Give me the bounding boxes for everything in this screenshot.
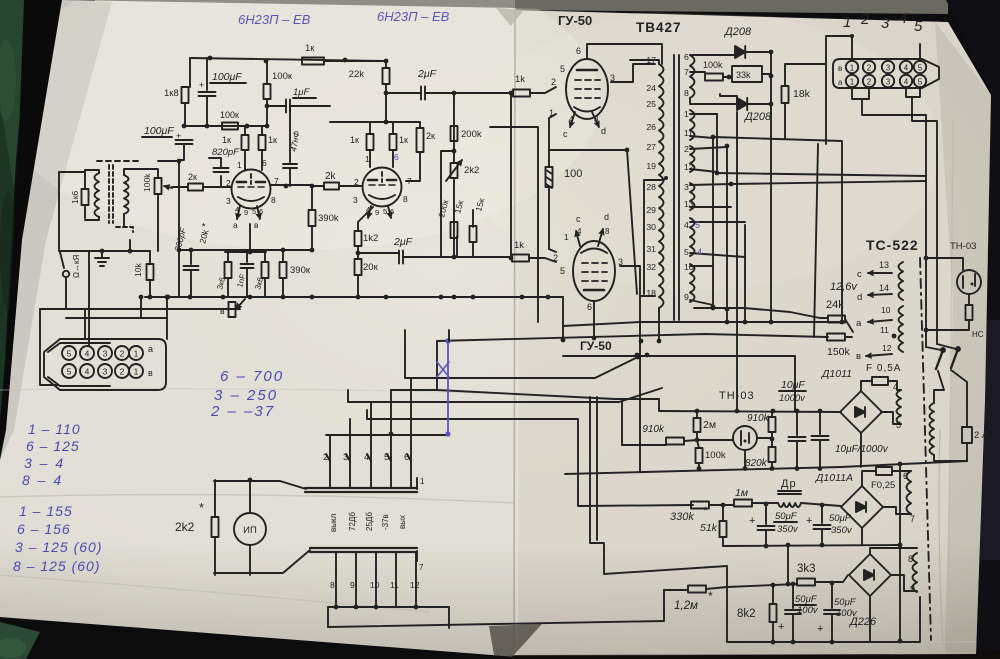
svg-text:3: 3 [353, 195, 358, 205]
svg-text:4: 4 [85, 367, 90, 377]
long feed line L3 [731, 181, 926, 184]
paper crease left horizontal [0, 495, 515, 503]
triode V2 6N23P-EV second half [363, 168, 402, 207]
svg-text:350v: 350v [777, 524, 799, 535]
svg-text:2k: 2k [325, 171, 337, 182]
connector X1 octal outline [44, 339, 166, 390]
V2 plate feed node [330, 93, 420, 122]
PSU3 winding 8-9 [870, 548, 917, 553]
wire to grid [172, 186, 188, 188]
svg-text:9: 9 [244, 208, 248, 217]
svg-text:1к6: 1к6 [70, 191, 80, 204]
svg-text:29: 29 [646, 205, 656, 215]
bridge bottom wire [860, 433, 862, 467]
svg-text:2м: 2м [703, 419, 716, 431]
svg-text:4: 4 [85, 349, 90, 359]
svg-text:Д208: Д208 [723, 26, 752, 38]
svg-text:6Н23П – ЕВ: 6Н23П – ЕВ [377, 9, 450, 24]
svg-text:c: c [576, 214, 581, 224]
switch wafer bar top [305, 488, 417, 492]
svg-text:ТС-522: ТС-522 [866, 237, 919, 253]
capacitor 50uF 100v second [831, 583, 833, 608]
svg-text:6 – 700: 6 – 700 [220, 368, 284, 385]
line 24k feed [694, 308, 828, 318]
green table bottom-left corner [0, 622, 40, 659]
resistor 100k plate feed [222, 123, 238, 130]
TV427 secondary winding 4-5 [690, 218, 695, 256]
svg-text:13: 13 [879, 260, 889, 270]
svg-text:100к: 100к [272, 71, 293, 82]
resistor 100k screen [266, 61, 268, 84]
potentiometer 100k [155, 178, 162, 194]
dark strip below paper bottom edge [0, 616, 520, 659]
svg-text:30: 30 [646, 222, 656, 232]
svg-text:Д1011: Д1011 [821, 368, 852, 380]
svg-text:3: 3 [226, 196, 231, 206]
vertical divider chain [453, 93, 455, 151]
svg-text:18k: 18k [793, 88, 811, 100]
resistor 1.2M [664, 589, 688, 591]
svg-text:d: d [601, 126, 606, 136]
svg-text:1: 1 [237, 160, 242, 170]
svg-text:4: 4 [904, 78, 909, 87]
svg-text:33k: 33k [736, 70, 751, 80]
neon lamp TN-03 right [957, 270, 981, 294]
long vertical from pot area [178, 161, 180, 297]
svg-text:2: 2 [867, 78, 872, 87]
shadow wedge between sheets at bottom [489, 624, 542, 657]
svg-text:100v: 100v [797, 605, 819, 616]
resistor 1k8 [189, 58, 191, 87]
TS-522 winding 13-14 [899, 262, 904, 300]
wire left input [59, 172, 85, 250]
primary bottom to busA [658, 310, 660, 341]
PSU1 rail to fuse [841, 461, 967, 467]
PSU1 feed rail [660, 411, 841, 412]
svg-text:50μF: 50μF [775, 511, 798, 522]
resistor 390k V1 [311, 186, 313, 210]
svg-text:2: 2 [120, 367, 125, 377]
pot tap 8 [229, 302, 236, 317]
choke Dr [778, 491, 801, 494]
input transformer T1 shield dashed [97, 160, 139, 162]
bus D [405, 330, 638, 378]
svg-text:5: 5 [918, 78, 923, 87]
svg-text:5: 5 [914, 18, 923, 35]
svg-text:3: 3 [886, 78, 891, 87]
svg-text:6: 6 [394, 152, 399, 162]
svg-text:17: 17 [646, 55, 656, 65]
svg-text:6 – 156: 6 – 156 [17, 521, 71, 537]
svg-text:3: 3 [886, 64, 891, 73]
resistor 3k3 [727, 584, 797, 587]
svg-text:910k: 910k [642, 424, 665, 435]
svg-text:11: 11 [684, 128, 693, 138]
svg-text:НС: НС [972, 330, 984, 339]
TV427 primary winding [659, 64, 664, 308]
bus C to PSU1 feed [437, 390, 659, 411]
svg-text:4: 4 [364, 452, 369, 463]
blue X mark [437, 362, 449, 377]
PSU2 winding 6-7 [907, 471, 912, 514]
connector X2 outline [833, 59, 939, 88]
svg-text:1μF: 1μF [293, 87, 310, 98]
svg-text:3k3: 3k3 [797, 563, 816, 575]
svg-text:4: 4 [684, 220, 689, 230]
svg-text:1к8: 1к8 [164, 88, 179, 99]
bus B GU50 rail [563, 356, 795, 411]
svg-text:в: в [856, 351, 861, 362]
svg-text:31: 31 [646, 244, 656, 254]
input transformer T1 primary winding [95, 173, 100, 217]
svg-text:100к: 100к [220, 110, 239, 120]
svg-text:7: 7 [910, 514, 915, 524]
svg-text:910k: 910k [747, 413, 770, 424]
cathode junction line y150 [549, 149, 627, 151]
TV427 secondary winding 6-7-8 [690, 55, 695, 98]
resistor 1k GU50 grid 1 [513, 90, 530, 97]
input transformer T1 core [109, 165, 113, 223]
svg-text:2μF: 2μF [393, 236, 413, 248]
line y309 [40, 308, 240, 310]
svg-text:1к: 1к [305, 43, 315, 54]
svg-text:Д226: Д226 [848, 616, 877, 628]
resistor 910k second [769, 417, 776, 432]
svg-text:1к: 1к [222, 135, 231, 145]
long vertical from connector to busA [814, 144, 818, 337]
svg-text:+: + [817, 623, 823, 635]
svg-text:350v: 350v [831, 525, 853, 536]
svg-text:8: 8 [908, 554, 913, 564]
switch feed wires 2 3 4 5 6 [329, 461, 331, 488]
svg-text:1: 1 [420, 477, 425, 486]
resistor 20k [355, 259, 362, 275]
V2 cathode network [358, 207, 373, 231]
PSU3 feed from PSU2 [787, 545, 789, 584]
svg-text:390к: 390к [290, 265, 311, 276]
svg-text:11: 11 [390, 580, 399, 590]
resistor 330k [691, 502, 709, 509]
resistor 100k rectifier [690, 71, 705, 73]
svg-text:в: в [254, 220, 259, 230]
bus A to 150k [437, 334, 828, 341]
wire junction row [59, 250, 150, 252]
svg-text:4: 4 [697, 247, 702, 257]
svg-text:1: 1 [134, 349, 139, 359]
bus E [348, 388, 662, 402]
svg-text:28: 28 [646, 182, 656, 192]
GU-50 second wires [549, 249, 556, 252]
svg-text:+: + [806, 515, 812, 527]
svg-text:19: 19 [646, 161, 656, 171]
svg-text:100μF: 100μF [144, 125, 174, 137]
resistor 8k2 [772, 585, 774, 604]
tube GU-50 second [573, 241, 615, 301]
resistor 1k V1 screen [259, 135, 266, 150]
svg-text:9: 9 [910, 584, 915, 594]
grid bias vertical x511 [510, 93, 512, 258]
bus wires middle [330, 434, 449, 436]
resistor 18k [782, 86, 789, 103]
svg-text:а: а [233, 220, 238, 230]
svg-text:12: 12 [410, 580, 420, 590]
svg-text:12: 12 [684, 162, 694, 172]
V1 cathode bypass network 3k6 1nF 3k6 [225, 251, 266, 253]
svg-text:8: 8 [605, 227, 610, 236]
resistor 22k [383, 68, 390, 84]
V1 grid wire pin7 to coupling [270, 184, 312, 186]
svg-text:390k: 390k [318, 213, 339, 224]
svg-text:Др: Др [781, 478, 797, 490]
svg-text:6: 6 [587, 302, 592, 312]
bottom bus to PSU [448, 607, 450, 628]
svg-text:2: 2 [551, 77, 556, 87]
svg-text:выкл: выкл [329, 513, 338, 532]
rheostat 2k2 [451, 163, 458, 178]
svg-text:4: 4 [893, 382, 898, 392]
resistor 820k [769, 447, 776, 462]
switch wafer bar bottom [310, 548, 417, 552]
resistor 2k V2 grid [324, 183, 339, 190]
svg-text:5: 5 [918, 64, 923, 73]
svg-text:2μF: 2μF [417, 68, 437, 80]
svg-text:5: 5 [383, 207, 387, 216]
capacitor 50uF 350v first [765, 504, 767, 524]
svg-text:6: 6 [684, 52, 689, 62]
bridge rectifier D226 [849, 554, 891, 596]
svg-text:1к: 1к [350, 135, 359, 145]
svg-text:c: c [563, 129, 568, 139]
svg-text:18: 18 [646, 288, 656, 298]
svg-text:3: 3 [881, 15, 890, 32]
divider cluster 200k 15k 15k [441, 151, 454, 257]
svg-text:4: 4 [904, 64, 909, 73]
coupling line y93 [386, 92, 421, 94]
neon stabilizer tube [733, 426, 757, 450]
svg-text:24k: 24k [826, 299, 844, 311]
svg-text:8 – 125 (60): 8 – 125 (60) [13, 558, 101, 574]
svg-text:820pF: 820pF [212, 147, 240, 158]
svg-text:3: 3 [103, 349, 108, 359]
connector X1 wires [141, 297, 167, 318]
svg-text:*: * [703, 505, 708, 517]
svg-text:2: 2 [226, 178, 231, 188]
svg-text:а: а [148, 344, 153, 354]
capacitor 1uF [267, 105, 286, 107]
svg-text:1 – 110: 1 – 110 [28, 421, 81, 437]
connector X2 wires bottom [852, 87, 869, 99]
svg-text:5: 5 [384, 452, 389, 463]
TV427 secondary winding 1-11 [690, 110, 695, 140]
svg-text:*: * [199, 500, 204, 515]
capacitor 10uF 1000v first [796, 412, 798, 435]
tube GU-50 first [566, 59, 608, 119]
capacitor 50uF 100v first [792, 584, 794, 608]
svg-text:в: в [148, 368, 153, 378]
svg-text:2: 2 [323, 452, 328, 463]
preamp ground rail [145, 296, 563, 298]
svg-text:27: 27 [646, 142, 656, 152]
TV427 secondary winding 2-12 [690, 146, 695, 172]
svg-text:+: + [778, 621, 784, 633]
svg-text:2 – –37: 2 – –37 [210, 403, 275, 420]
svg-text:2: 2 [553, 253, 558, 263]
GU-50 first anode wires [587, 44, 662, 64]
TV427 secondary winding 10-9 [690, 264, 695, 302]
svg-text:150k: 150k [827, 346, 851, 358]
resistor 2M [694, 418, 701, 432]
fold notch at seam top [496, 8, 524, 26]
svg-text:в: в [838, 64, 842, 73]
capacitor 100uF first [206, 58, 208, 90]
capacitor 2uF second [358, 252, 399, 254]
svg-text:5: 5 [695, 220, 700, 230]
black band along left paper edge [0, 0, 62, 460]
grid bias line y127 [490, 127, 538, 322]
resistor 10k [149, 251, 151, 264]
svg-text:2k2: 2k2 [175, 520, 195, 534]
svg-text:12,6v: 12,6v [830, 281, 858, 293]
resistor 100k PSU1 [696, 448, 703, 463]
svg-text:100μF: 100μF [212, 71, 242, 83]
input terminal [63, 271, 69, 277]
svg-text:25: 25 [646, 99, 656, 109]
svg-text:26: 26 [646, 122, 656, 132]
svg-text:9: 9 [350, 580, 355, 590]
svg-text:1: 1 [850, 78, 855, 87]
TV427 core [674, 55, 679, 320]
svg-text:6: 6 [404, 452, 409, 463]
svg-text:50μF: 50μF [795, 594, 818, 605]
capacitor 47nF [289, 106, 291, 162]
svg-text:5: 5 [560, 266, 565, 276]
svg-text:5: 5 [67, 367, 72, 377]
svg-text:2к: 2к [426, 131, 435, 141]
svg-text:1: 1 [843, 14, 851, 31]
resistor 33k box [732, 66, 762, 82]
svg-text:9: 9 [375, 208, 379, 217]
svg-text:3: 3 [103, 367, 108, 377]
svg-text:2к: 2к [188, 172, 197, 182]
svg-text:Д1011А: Д1011А [815, 472, 853, 484]
PSU1 bottom rail [565, 467, 841, 474]
long feed line L2 [717, 173, 926, 176]
resistor 2k V2 [417, 128, 424, 152]
svg-text:2 А: 2 А [974, 430, 989, 441]
bridge rectifier D1011A [841, 486, 883, 528]
svg-text:1,2м: 1,2м [674, 600, 698, 612]
svg-text:10μF: 10μF [781, 379, 805, 391]
TV427 secondary winding 3-13 [690, 183, 695, 210]
resistor 2k2 meter [214, 480, 216, 517]
TS-522 core dashed [920, 258, 931, 640]
svg-text:24: 24 [646, 83, 656, 93]
mains switch [941, 348, 945, 352]
long feed line L1 [713, 137, 842, 322]
svg-text:3: 3 [684, 182, 689, 192]
resistor 1k GU50 grid 2 [512, 255, 529, 262]
svg-text:ТВ427: ТВ427 [636, 20, 682, 35]
long verticals to PSU3 [590, 397, 727, 587]
svg-text:5: 5 [67, 349, 72, 359]
svg-text:2: 2 [684, 144, 689, 154]
PSU1 transformer winding 4-5 [897, 390, 902, 424]
svg-text:ТН-03: ТН-03 [950, 241, 976, 252]
svg-text:2k2: 2k2 [464, 165, 479, 176]
resistor 1k V1 plate [242, 135, 249, 150]
ground bus right side [899, 464, 901, 641]
resistor 200k [451, 126, 458, 141]
svg-text:1м: 1м [735, 487, 748, 499]
capacitor 820pF [220, 176, 222, 186]
svg-text:F 0,5A: F 0,5A [866, 363, 901, 374]
fuse F0.5A [861, 381, 872, 391]
resistor 390k second [280, 262, 287, 278]
paper sheet right [516, 10, 991, 655]
svg-text:3: 3 [343, 452, 348, 463]
svg-text:Д208: Д208 [743, 111, 772, 123]
svg-text:200k: 200k [461, 129, 482, 140]
input transformer T1 secondary winding [124, 175, 129, 214]
svg-text:3 – 125 (60): 3 – 125 (60) [15, 539, 103, 555]
diode D208 second [720, 94, 737, 104]
svg-text:100k: 100k [703, 60, 723, 70]
svg-text:1: 1 [365, 154, 370, 164]
svg-text:1k: 1k [514, 240, 524, 251]
svg-text:*: * [708, 589, 713, 603]
svg-text:8 – 4: 8 – 4 [22, 472, 63, 488]
svg-text:-37в: -37в [381, 514, 390, 530]
svg-text:3 – 250: 3 – 250 [214, 387, 278, 404]
svg-text:Ω↔кЯ: Ω↔кЯ [72, 255, 81, 278]
svg-text:820k: 820k [745, 458, 768, 469]
svg-text:72Дб: 72Дб [348, 512, 357, 531]
wire matrix verticals [716, 114, 718, 173]
svg-text:5: 5 [560, 64, 565, 74]
GU-50 first grid return [549, 114, 556, 167]
paper sheet left [0, 0, 516, 656]
svg-text:ИП: ИП [243, 525, 257, 536]
paper crease bottom [0, 575, 430, 612]
svg-text:25Дб: 25Дб [365, 512, 374, 531]
svg-text:14: 14 [879, 283, 889, 293]
svg-text:2: 2 [867, 64, 872, 73]
svg-text:1: 1 [684, 109, 689, 119]
V2 grid resistor 2k wire [340, 185, 361, 187]
svg-text:1: 1 [850, 64, 855, 73]
gray strip above paper top edge [95, 0, 520, 10]
diode D208 top [735, 46, 745, 58]
svg-text:а: а [838, 78, 843, 87]
connector X1 pins row 2 [62, 364, 76, 378]
svg-text:20к: 20к [363, 262, 379, 273]
svg-text:+: + [749, 515, 755, 527]
svg-text:100k: 100k [142, 173, 152, 192]
svg-text:330k: 330k [670, 511, 694, 523]
svg-text:5: 5 [684, 247, 689, 257]
meter IP [234, 513, 266, 545]
TN-03 wires [926, 258, 963, 270]
ground [95, 251, 109, 266]
svg-text:5: 5 [896, 420, 901, 430]
svg-text:8: 8 [403, 194, 408, 204]
svg-text:d: d [857, 292, 862, 303]
capacitor 2uF first [421, 87, 425, 100]
mains fuse 2A [951, 370, 967, 427]
svg-text:3 – 4: 3 – 4 [24, 455, 65, 471]
node line y126 [184, 125, 267, 127]
bottom switch wires 8 9 10 11 12 [335, 552, 337, 607]
